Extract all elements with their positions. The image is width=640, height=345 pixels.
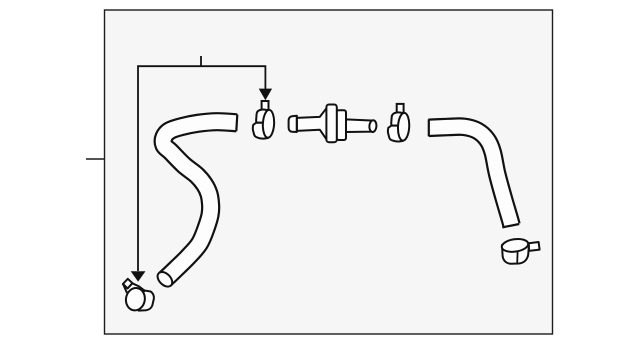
- C1 upper body: [256, 109, 268, 122]
- hose H1 flat end cut: [236, 115, 237, 132]
- leader line: [138, 56, 265, 271]
- check valve V1: right tube: [346, 119, 374, 132]
- picture box: [105, 10, 553, 334]
- check valve V1: band 2: [337, 110, 346, 140]
- C5 rear block: [139, 290, 154, 311]
- C5 body shoulder: [123, 283, 145, 296]
- clamp C6 (bottom-right): stub: [529, 242, 540, 251]
- arrow to connector C5: [131, 271, 146, 281]
- C5 stub: [123, 279, 133, 289]
- connector C1 (below top arrow): [253, 101, 275, 139]
- hose H2 top end cut: [428, 119, 430, 136]
- arrow to connector C1: [259, 89, 272, 101]
- connector C5 (bottom-left, under arrow): [123, 279, 154, 312]
- C5 face ellipse: [124, 287, 146, 312]
- connector C4 (right of valve): [388, 104, 410, 142]
- check valve V1: nipple junction line: [296, 116, 298, 131]
- C1 stub: [262, 101, 269, 110]
- clamp C6: body: [502, 245, 529, 264]
- clamp C6: top face: [501, 237, 529, 253]
- left tick mark: [86, 158, 105, 160]
- hose H1 open end: [155, 269, 175, 289]
- check valve V1: band 1: [326, 105, 336, 143]
- check valve V1: right tube end rim: [369, 120, 377, 132]
- hose H1 (left S-hose): [163, 122, 237, 280]
- clamp C6: divider line: [516, 251, 518, 263]
- check valve V1: cone body: [297, 108, 327, 140]
- check valve V1: left nipple: [289, 116, 297, 132]
- hose H2 (right hose): [429, 127, 512, 226]
- C1 lower body block: [253, 123, 268, 139]
- hose H2 bottom end cut: [502, 224, 519, 227]
- C1 face ellipse: [262, 110, 275, 138]
